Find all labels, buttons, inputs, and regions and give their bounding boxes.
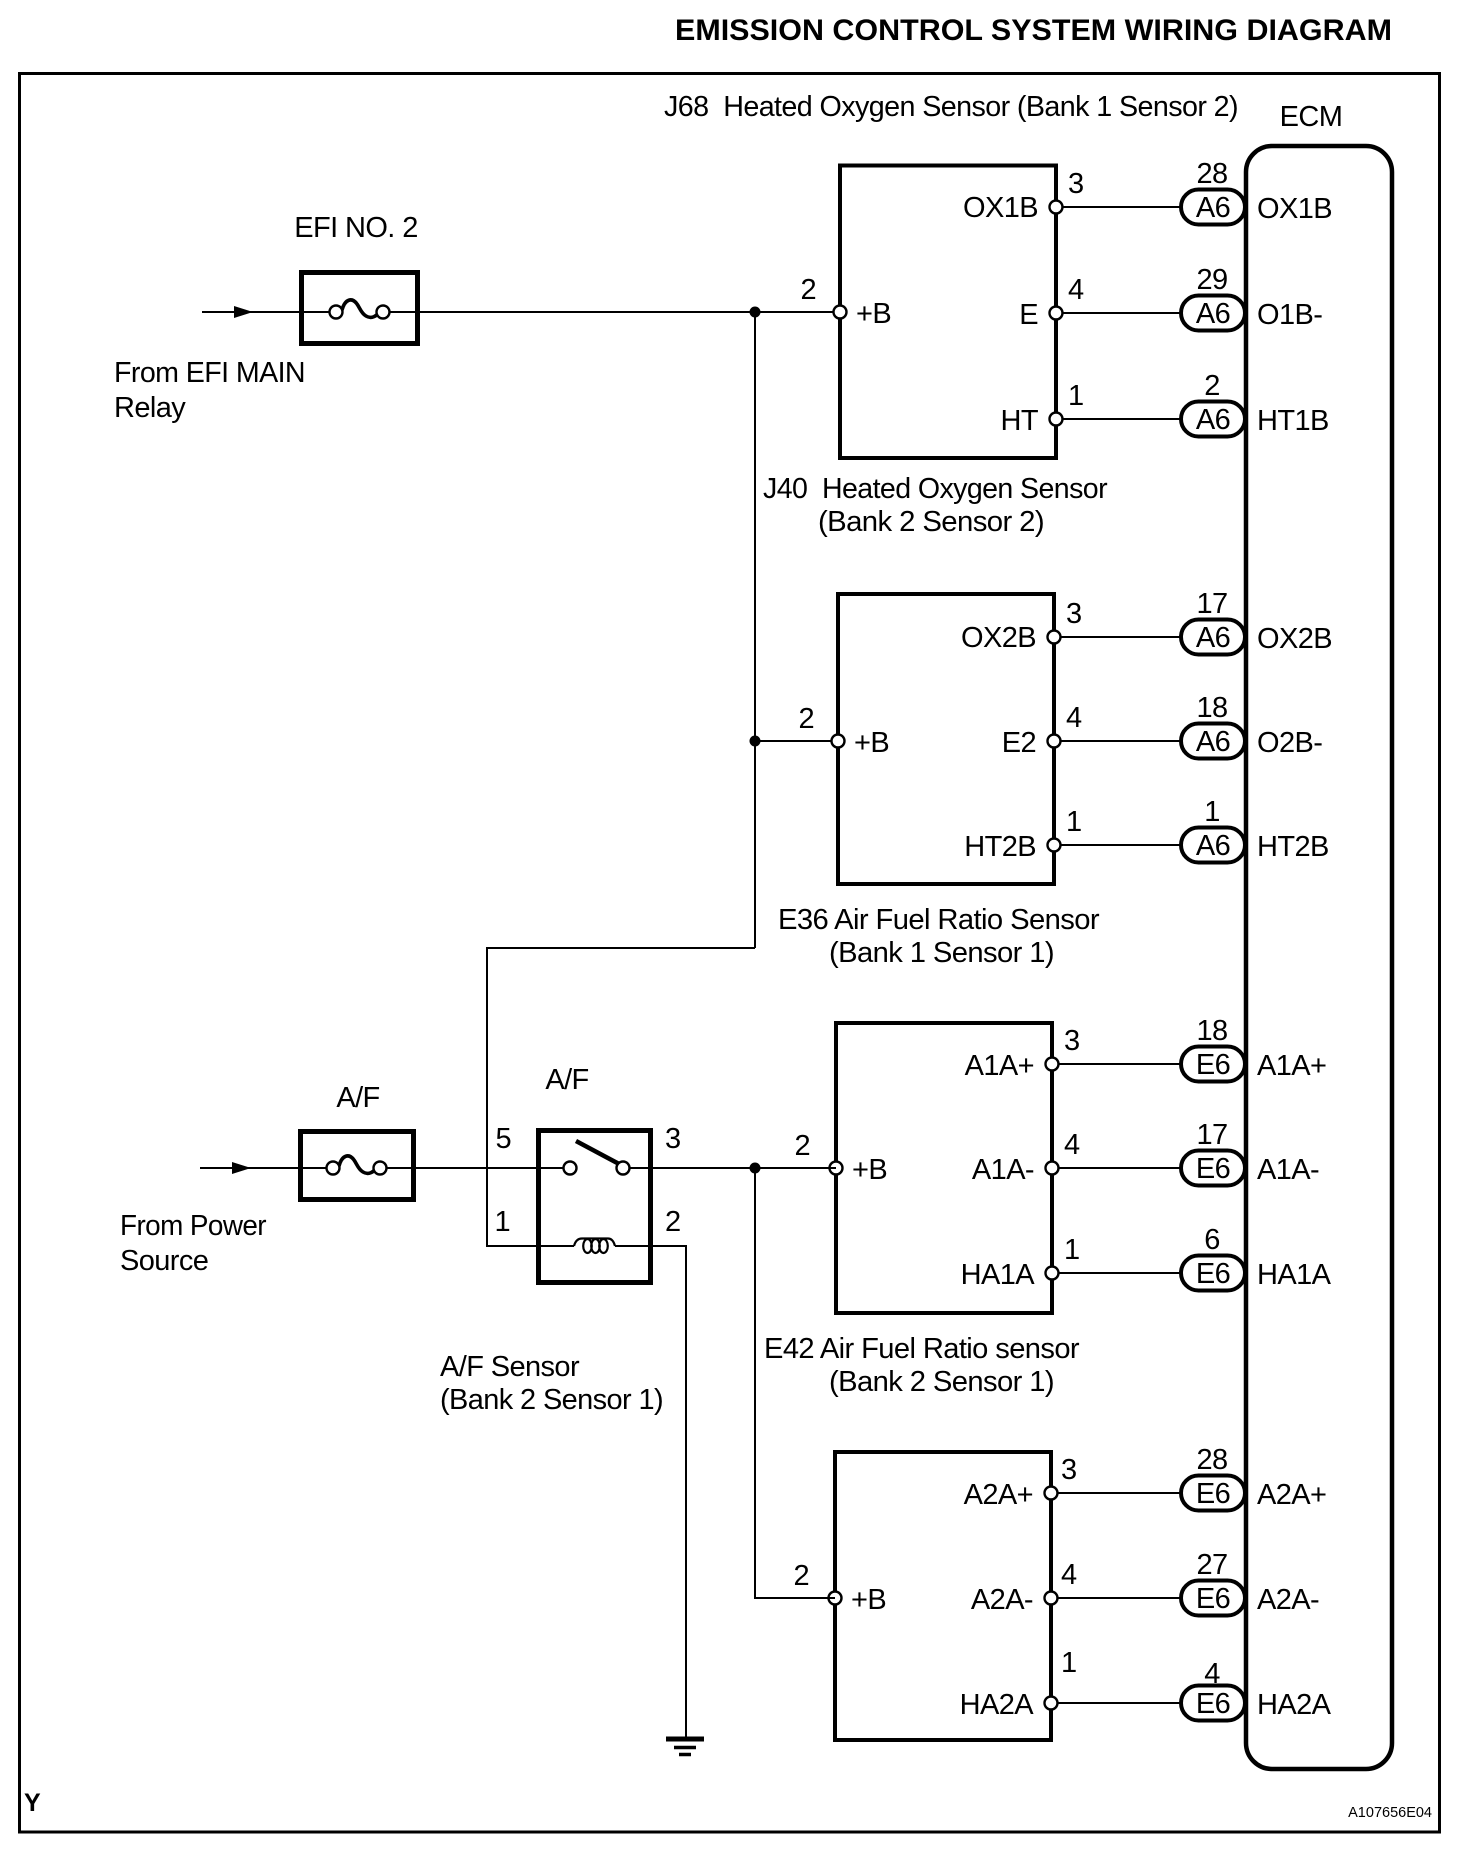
svg-text:1: 1 [1061,1647,1077,1679]
pin 1 HT of J68 to ECM A6 pin 2 [1001,370,1329,437]
svg-text:A6: A6 [1196,404,1230,436]
svg-text:+B: +B [856,298,891,330]
svg-text:27: 27 [1196,1549,1227,1581]
svg-text:4: 4 [1064,1129,1080,1161]
svg-text:E2: E2 [1002,727,1036,759]
svg-text:HT2B: HT2B [1257,831,1329,863]
fuse A/F [298,1082,416,1200]
svg-text:A/F: A/F [545,1064,588,1096]
node: junction at E36 +B branch [750,1163,761,1174]
svg-text:A6: A6 [1196,726,1230,758]
svg-text:+B: +B [854,727,889,759]
svg-text:O2B-: O2B- [1257,727,1322,759]
pin 4 E2 of J40 to ECM A6 pin 18 [1002,692,1323,759]
svg-text:18: 18 [1196,692,1227,724]
svg-text:3: 3 [665,1123,681,1155]
svg-text:J68 Heated Oxygen Sensor (Ban: J68 Heated Oxygen Sensor (Bank 1 Sensor … [664,91,1238,123]
connector J68 box [664,91,1238,458]
node: +B bus junction top [750,307,761,318]
svg-text:Relay: Relay [114,392,186,424]
svg-text:1: 1 [1068,380,1084,412]
svg-text:E42 Air Fuel Ratio sensor: E42 Air Fuel Ratio sensor [764,1333,1080,1365]
svg-text:2: 2 [793,1560,809,1592]
svg-text:From EFI MAIN: From EFI MAIN [114,357,305,389]
svg-text:6: 6 [1204,1224,1220,1256]
svg-text:28: 28 [1196,1444,1227,1476]
relay A/F box [539,1064,651,1283]
pin 2 +B of E42 [793,1560,886,1616]
svg-text:4: 4 [1061,1559,1077,1591]
pin 2 +B of J68 [800,274,891,330]
pin 4 A2A- of E42 to ECM E6 pin 27 [971,1549,1319,1616]
svg-text:E6: E6 [1196,1688,1230,1720]
svg-text:3: 3 [1066,598,1082,630]
pin 1 HA1A of E36 to ECM E6 pin 6 [961,1224,1332,1291]
pin 2 +B of J40 [798,703,889,759]
svg-text:A1A+: A1A+ [965,1050,1034,1082]
svg-text:4: 4 [1068,274,1084,306]
svg-text:A6: A6 [1196,830,1230,862]
svg-text:E6: E6 [1196,1258,1230,1290]
svg-text:29: 29 [1196,264,1227,296]
svg-text:1: 1 [1204,796,1220,828]
svg-text:E: E [1019,299,1038,331]
svg-text:EFI NO. 2: EFI NO. 2 [294,212,418,244]
svg-text:3: 3 [1068,168,1084,200]
wire: +B bus to relay coil pin 1 [487,948,755,1246]
wire: arrow from Power Source [200,1162,298,1174]
connector E42 box [764,1333,1080,1740]
svg-text:E36 Air Fuel Ratio Sensor: E36 Air Fuel Ratio Sensor [778,904,1100,936]
svg-text:A1A+: A1A+ [1257,1050,1326,1082]
svg-text:OX2B: OX2B [1257,623,1332,655]
connector E36 box [778,904,1100,1313]
ECM U1 [1246,101,1392,1769]
wire: +B bus vertical drop [754,312,756,948]
svg-text:EMISSION CONTROL SYSTEM WIRING: EMISSION CONTROL SYSTEM WIRING DIAGRAM [675,14,1392,47]
svg-text:17: 17 [1196,1119,1227,1151]
svg-text:2: 2 [794,1130,810,1162]
svg-text:2: 2 [798,703,814,735]
svg-text:5: 5 [495,1123,511,1155]
svg-text:A1A-: A1A- [1257,1154,1319,1186]
pin 4 E of J68 to ECM A6 pin 29 [1019,264,1322,331]
svg-text:(Bank 2 Sensor 1): (Bank 2 Sensor 1) [829,1366,1054,1398]
svg-text:OX2B: OX2B [961,622,1036,654]
svg-text:OX1B: OX1B [1257,193,1332,225]
svg-text:ECM: ECM [1280,101,1343,133]
relay A/F switch contacts (pins 5,3) [495,1123,680,1175]
relay A/F coil (pins 1,2) [494,1206,680,1253]
svg-text:A/F Sensor: A/F Sensor [440,1351,580,1383]
pin 3 A1A+ of E36 to ECM E6 pin 18 [965,1015,1327,1082]
wire: junction to J40 +B [755,740,838,742]
connector J40 box [763,473,1108,884]
svg-text:1: 1 [1064,1234,1080,1266]
pin 3 A2A+ of E42 to ECM E6 pin 28 [964,1444,1327,1511]
svg-text:OX1B: OX1B [963,192,1038,224]
svg-text:From Power: From Power [120,1210,267,1242]
svg-text:3: 3 [1064,1025,1080,1057]
svg-text:A1A-: A1A- [972,1154,1034,1186]
svg-text:A2A+: A2A+ [964,1479,1033,1511]
wire: relay pin 2 to ground [653,1246,686,1737]
label: A/F Sensor (Bank 2 Sensor 1) [440,1351,663,1416]
svg-text:1: 1 [494,1206,510,1238]
pin 3 OX1B of J68 to ECM A6 pin 28 [963,158,1332,225]
label: From Power Source [120,1210,267,1277]
svg-text:E6: E6 [1196,1583,1230,1615]
svg-text:18: 18 [1196,1015,1227,1047]
pin 4 A1A- of E36 to ECM E6 pin 17 [972,1119,1319,1186]
svg-text:2: 2 [1204,370,1220,402]
svg-text:E6: E6 [1196,1478,1230,1510]
svg-text:A6: A6 [1196,192,1230,224]
wire: junction down to E42 +B [755,1168,835,1598]
svg-text:HA1A: HA1A [1257,1259,1332,1291]
svg-text:E6: E6 [1196,1049,1230,1081]
svg-text:A2A-: A2A- [1257,1584,1319,1616]
svg-text:(Bank 2 Sensor 2): (Bank 2 Sensor 2) [818,506,1044,538]
wire: EFI fuse to J68 +B [418,311,840,313]
wire: relay pin 3 to E36 +B [653,1167,836,1169]
svg-text:HT: HT [1001,405,1039,437]
svg-text:28: 28 [1196,158,1227,190]
svg-text:(Bank 1 Sensor 1): (Bank 1 Sensor 1) [829,937,1054,969]
svg-text:+B: +B [852,1154,887,1186]
svg-text:J40 Heated Oxygen Sensor: J40 Heated Oxygen Sensor [763,473,1108,505]
svg-text:A2A+: A2A+ [1257,1479,1326,1511]
pin 3 OX2B of J40 to ECM A6 pin 17 [961,588,1332,655]
svg-text:2: 2 [800,274,816,306]
svg-text:Source: Source [120,1245,208,1277]
svg-text:Y: Y [24,1789,41,1817]
svg-text:A/F: A/F [336,1082,379,1114]
pin 2 +B of E36 [794,1130,887,1186]
fuse EFI NO. 2 [294,212,418,344]
svg-text:A2A-: A2A- [971,1584,1033,1616]
svg-text:3: 3 [1061,1454,1077,1486]
svg-text:HA2A: HA2A [960,1689,1035,1721]
ground [666,1739,704,1755]
pin 1 HT2B of J40 to ECM A6 pin 1 [964,796,1328,863]
svg-text:A6: A6 [1196,298,1230,330]
svg-text:E6: E6 [1196,1153,1230,1185]
svg-text:4: 4 [1066,702,1082,734]
svg-text:HA2A: HA2A [1257,1689,1332,1721]
svg-text:A6: A6 [1196,622,1230,654]
svg-text:HA1A: HA1A [961,1259,1036,1291]
svg-text:O1B-: O1B- [1257,299,1322,331]
wire: A/F fuse to relay pin 5 [416,1167,564,1169]
svg-text:17: 17 [1196,588,1227,620]
svg-text:HT1B: HT1B [1257,405,1329,437]
svg-text:1: 1 [1066,806,1082,838]
pin 1 HA2A of E42 to ECM E6 pin 4 [960,1647,1332,1721]
svg-text:A107656E04: A107656E04 [1348,1805,1432,1821]
svg-text:+B: +B [851,1584,886,1616]
wire: arrow from EFI MAIN relay [202,306,301,318]
svg-text:2: 2 [665,1206,681,1238]
svg-text:HT2B: HT2B [964,831,1036,863]
node: junction at J40 +B branch [750,736,761,747]
label: From EFI MAIN Relay [114,357,305,424]
svg-text:(Bank 2 Sensor 1): (Bank 2 Sensor 1) [440,1384,663,1416]
